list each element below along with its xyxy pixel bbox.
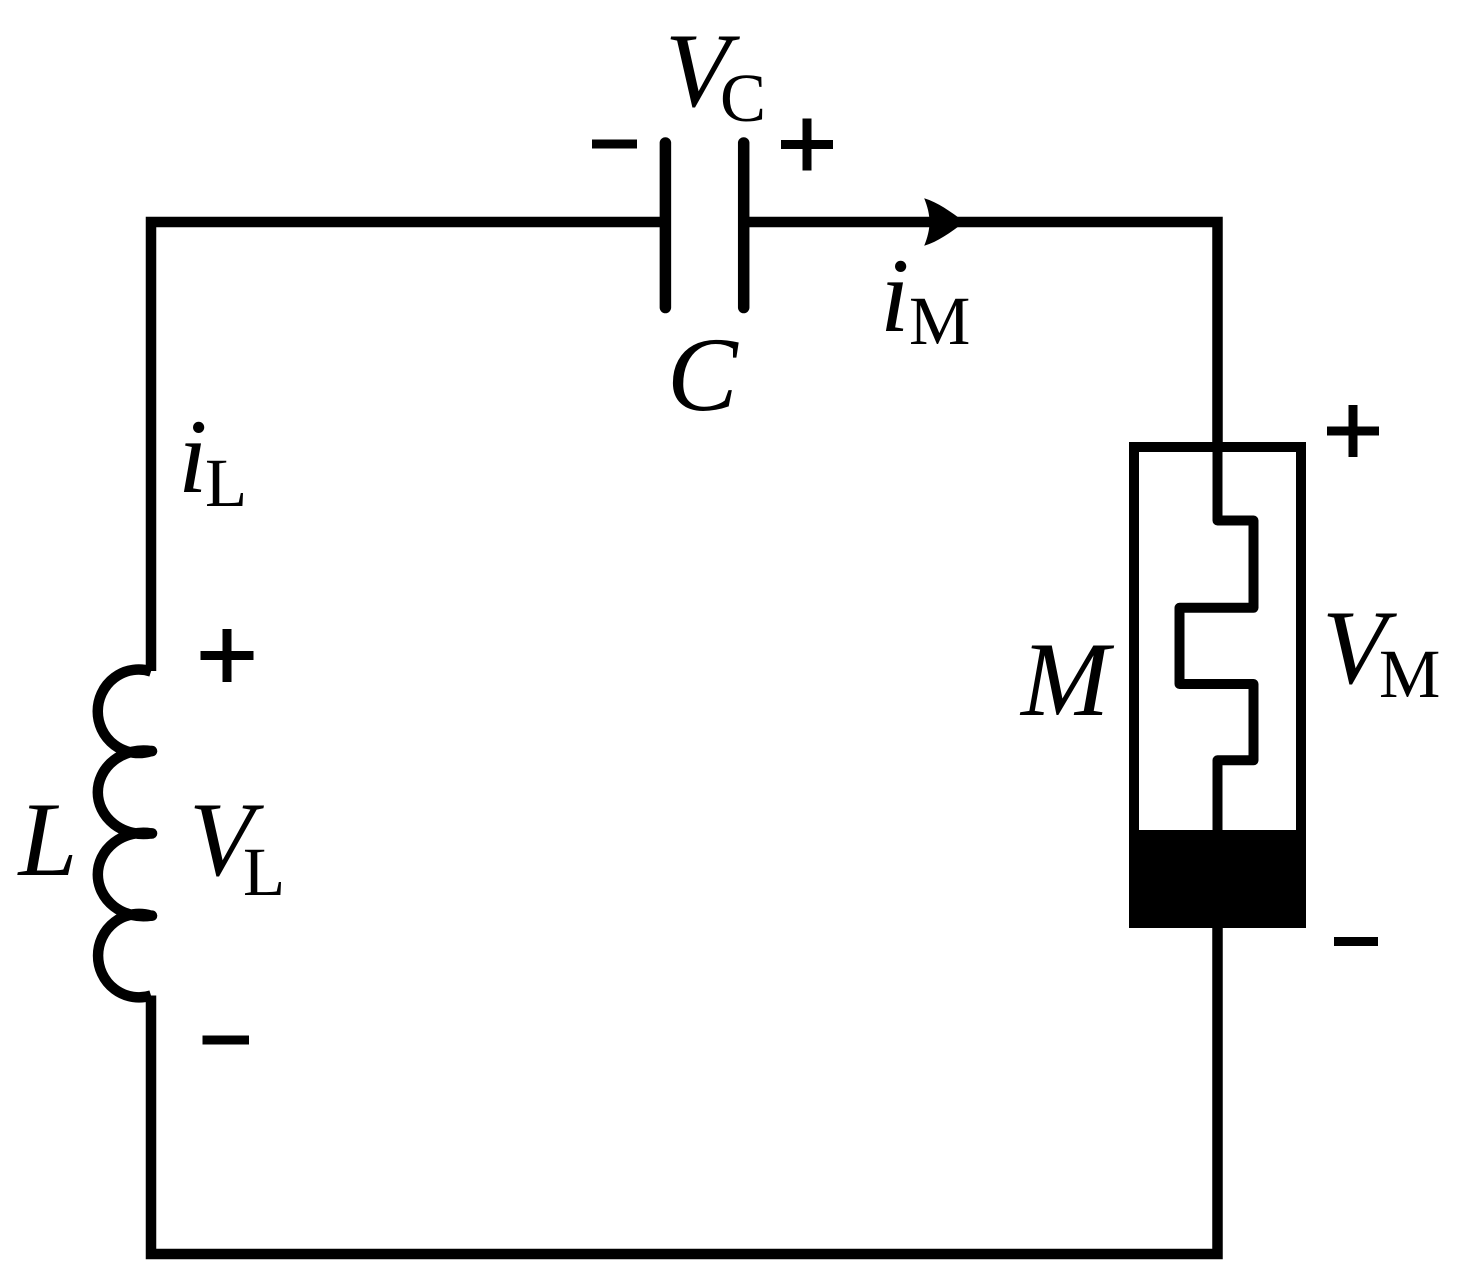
plus sign memristor — [1327, 405, 1379, 457]
coil cusp nubs — [147, 746, 158, 757]
wire top-right: from capacitor right plate to memristor top — [744, 222, 1218, 452]
arrow i_M on top wire — [924, 198, 964, 246]
memristor M: outline box — [1134, 447, 1301, 923]
svg-text:i: i — [178, 398, 207, 515]
plus sign inductor — [201, 629, 254, 682]
wire bottom: memristor bottom, bottom rail, up to inductor bottom — [151, 925, 1218, 1254]
svg-text:M: M — [909, 283, 970, 359]
capacitor C plates — [665, 143, 743, 308]
svg-text:i: i — [880, 237, 909, 354]
svg-text:L: L — [17, 781, 78, 898]
svg-text:M: M — [1379, 636, 1440, 712]
svg-text:L: L — [243, 834, 285, 910]
svg-text:C: C — [667, 316, 739, 433]
memristor filled bar — [1129, 830, 1306, 928]
inductor L coil (4 arcs) — [98, 670, 151, 998]
svg-text:L: L — [205, 445, 247, 521]
minus sign memristor — [1334, 937, 1378, 946]
minus sign capacitor — [592, 140, 637, 149]
wire top-left: from inductor top up and right to capacitor left plate — [151, 222, 665, 671]
memristor meander — [1180, 445, 1254, 835]
minus sign inductor — [203, 1036, 250, 1045]
svg-text:C: C — [720, 60, 766, 136]
svg-text:M: M — [1019, 621, 1115, 738]
plus sign capacitor — [781, 119, 833, 171]
